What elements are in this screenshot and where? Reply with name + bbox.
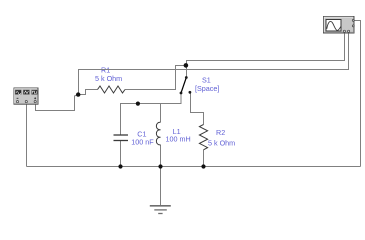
wire: R1 right lead up to node B (125, 66, 184, 90)
junction node B (R1 right / scope) (184, 63, 189, 68)
wire: oscilloscope bottom-left terminal down and across to node B (wire A) (187, 33, 345, 64)
wire: tank node to L1 top (160, 104, 162, 123)
label C1 (131, 129, 154, 146)
wire: R2 bottom to bus (203, 150, 205, 167)
wire: switch left throw down to tank node (121, 94, 182, 136)
svg-text:R2: R2 (216, 128, 225, 137)
wire: R1 left lead from node A (78, 90, 98, 95)
svg-text:S1: S1 (202, 75, 211, 84)
wire: FG common terminal down to bottom bus (26, 104, 28, 167)
label S1 (195, 75, 219, 93)
wire: ground stem (160, 167, 162, 206)
svg-text:5 k Ohm: 5 k Ohm (208, 138, 235, 147)
resistor R1 (98, 86, 126, 93)
svg-text:[Space]: [Space] (195, 84, 219, 93)
svg-text:5 k Ohm: 5 k Ohm (95, 74, 122, 83)
svg-text:100 nF: 100 nF (131, 138, 154, 147)
label R2 (208, 128, 235, 147)
junction node A (R1 left) (76, 92, 80, 96)
junction tank node (136, 102, 140, 106)
wire: right side vertical up to oscilloscope right terminal (355, 21, 361, 167)
junction L1/ground/bus (158, 164, 162, 168)
wire: node A up and across to oscilloscope bottom-right terminal (wire B) (79, 33, 349, 95)
switch S1 blade (180, 76, 192, 94)
function generator XFG1 (14, 88, 38, 104)
junction C1/bus (118, 164, 122, 168)
wire: bottom ground bus (27, 166, 361, 168)
label R1 (95, 65, 122, 83)
wire: C1 bottom to bus (120, 141, 122, 167)
wire: node B down to switch pole (186, 66, 188, 77)
resistor R2 (199, 125, 207, 150)
junction R2/bus (201, 164, 205, 168)
oscilloscope XSC1 (324, 17, 355, 34)
capacitor C1 (114, 135, 129, 141)
inductor L1 (156, 122, 160, 145)
svg-text:100 mH: 100 mH (166, 135, 191, 144)
wire: FG plus terminal to node A (36, 95, 79, 111)
label L1 (166, 127, 191, 144)
wire: L1 bottom to bus (160, 145, 162, 167)
wire: switch right throw down and across to R2 top (191, 93, 204, 125)
ground (150, 206, 171, 214)
